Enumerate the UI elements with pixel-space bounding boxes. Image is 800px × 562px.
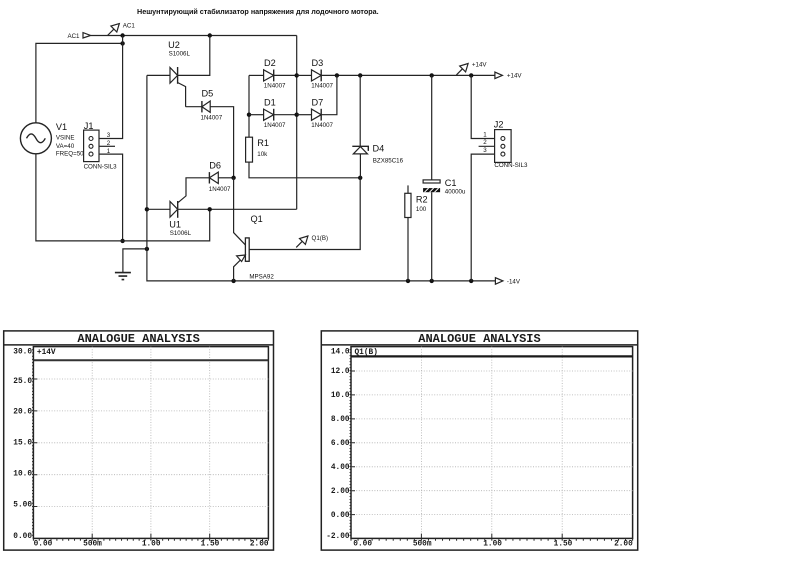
svg-text:1.50: 1.50 — [201, 541, 220, 549]
node top-2 — [208, 33, 212, 37]
svg-text:100: 100 — [416, 206, 427, 213]
svg-text:15.0: 15.0 — [13, 440, 32, 448]
analysis graph 1 — [4, 331, 274, 550]
wire R1 column — [248, 75, 250, 137]
svg-text:500m: 500m — [413, 541, 432, 549]
svg-text:5.00: 5.00 — [13, 501, 32, 509]
node top-1 — [120, 33, 124, 37]
node D6 anode — [231, 176, 235, 180]
svg-text:2.00: 2.00 — [250, 541, 269, 549]
svg-text:30.0: 30.0 — [13, 349, 32, 357]
ground branch wire — [123, 249, 147, 273]
svg-text:1N4007: 1N4007 — [311, 83, 333, 90]
probe Q1(B) — [296, 241, 302, 247]
svg-text:-2.00: -2.00 — [326, 533, 350, 541]
graph1 trace +14V — [33, 359, 268, 361]
wire D5 cathode — [186, 106, 202, 108]
svg-text:R1: R1 — [257, 138, 269, 148]
node U1 cathode — [208, 207, 212, 211]
svg-text:+14V: +14V — [507, 73, 522, 80]
resistor R2 — [407, 185, 409, 193]
node ground branch — [145, 247, 149, 251]
transistor Q1 — [234, 178, 246, 245]
graph2 trace Q1(B) — [351, 355, 633, 357]
capacitor C1 — [431, 75, 433, 179]
wire left column and bottom rail — [147, 75, 496, 281]
svg-text:6.00: 6.00 — [331, 440, 350, 448]
diode D6 — [208, 172, 210, 183]
svg-text:-14V: -14V — [507, 278, 521, 285]
wire U1 anode — [147, 208, 170, 210]
svg-text:CONN-SIL3: CONN-SIL3 — [84, 163, 118, 170]
graph2 y labels — [326, 349, 350, 542]
graph1 y labels — [13, 349, 32, 542]
node rail Q1 emitter — [231, 279, 235, 283]
svg-text:10k: 10k — [257, 151, 268, 158]
svg-text:2: 2 — [107, 140, 111, 147]
node V1 top — [120, 41, 124, 45]
svg-text:1.00: 1.00 — [142, 541, 161, 549]
wire D5 anode column — [210, 107, 233, 178]
svg-text:1N4007: 1N4007 — [311, 122, 333, 129]
node bridge bottom-left — [295, 113, 299, 117]
voltage source V1 — [20, 123, 51, 154]
wire D4 anode — [359, 154, 361, 178]
svg-text:1N4007: 1N4007 — [264, 83, 286, 90]
svg-text:1.50: 1.50 — [554, 541, 573, 549]
wire D7 anode — [297, 114, 312, 116]
terminal -14V — [495, 278, 503, 285]
svg-text:500m: 500m — [83, 541, 102, 549]
thyristor U2 — [170, 68, 178, 84]
diode D2 — [264, 70, 274, 81]
svg-text:D3: D3 — [312, 58, 324, 68]
svg-text:VA=40: VA=40 — [56, 143, 75, 150]
svg-text:VSINE: VSINE — [56, 135, 75, 142]
svg-text:Q1(B): Q1(B) — [312, 235, 329, 242]
wire D2 anode — [249, 74, 264, 76]
svg-text:4.00: 4.00 — [331, 464, 350, 472]
wire +14V rail — [321, 74, 495, 76]
svg-text:10.0: 10.0 — [13, 471, 32, 479]
graph1 gridlines — [33, 347, 268, 539]
svg-text:Нешунтирующий стабилизатор нап: Нешунтирующий стабилизатор напряжения дл… — [137, 7, 379, 16]
svg-text:U2: U2 — [168, 40, 180, 50]
wire V1 top loop — [36, 43, 123, 123]
node D7 top — [335, 73, 339, 77]
svg-text:Q1(B): Q1(B) — [355, 349, 378, 357]
svg-text:20.0: 20.0 — [13, 409, 32, 417]
resistor R1 — [246, 137, 253, 162]
node bridge top-left — [295, 73, 299, 77]
svg-text:+14V: +14V — [472, 61, 487, 68]
svg-text:V1: V1 — [56, 122, 67, 132]
graph2 x labels — [353, 541, 633, 549]
svg-text:1: 1 — [483, 131, 487, 138]
svg-text:R2: R2 — [416, 195, 428, 205]
terminal +14V — [495, 72, 503, 79]
svg-text:BZX85C16: BZX85C16 — [373, 157, 404, 164]
diode D7 — [312, 109, 322, 120]
wire D6 cathode and U1 gate — [178, 178, 209, 203]
wire D6 anode — [218, 177, 233, 179]
svg-text:CONN-SIL3: CONN-SIL3 — [494, 162, 528, 169]
svg-text:ANALOGUE ANALYSIS: ANALOGUE ANALYSIS — [418, 332, 540, 346]
svg-text:0.00: 0.00 — [34, 541, 53, 549]
probe AC1 — [108, 29, 114, 35]
graph2 gridlines — [351, 347, 633, 539]
wire D3 anode — [297, 74, 312, 76]
svg-text:1N4007: 1N4007 — [209, 186, 231, 193]
svg-text:1N4007: 1N4007 — [264, 122, 286, 129]
zener D4 — [352, 146, 368, 151]
wire D7 cathode up — [321, 75, 337, 114]
terminal AC1 — [83, 33, 91, 38]
node rail R2 — [406, 279, 410, 283]
wire D1 cathode — [274, 114, 297, 116]
svg-text:40000u: 40000u — [445, 189, 466, 196]
diode D1 — [264, 109, 274, 120]
wire V1 bottom loop to U1 — [36, 154, 210, 241]
svg-text:2.00: 2.00 — [614, 541, 633, 549]
svg-text:1: 1 — [107, 148, 111, 155]
diode D5 — [201, 101, 203, 112]
wire D2 cathode — [274, 74, 297, 76]
svg-text:0.00: 0.00 — [331, 512, 350, 520]
svg-text:3: 3 — [107, 132, 111, 139]
node R1 row right — [358, 176, 362, 180]
svg-text:+14V: +14V — [37, 349, 56, 357]
svg-text:MPSA92: MPSA92 — [249, 274, 274, 281]
wire D1 anode — [249, 114, 264, 116]
graph2 ticks — [350, 350, 633, 541]
svg-text:10.0: 10.0 — [331, 392, 350, 400]
connector J1 — [84, 130, 99, 162]
svg-text:S1006L: S1006L — [170, 230, 192, 237]
svg-text:C1: C1 — [445, 178, 457, 188]
svg-text:8.00: 8.00 — [331, 416, 350, 424]
thyristor U1 — [170, 202, 178, 218]
svg-text:14.0: 14.0 — [331, 349, 350, 357]
svg-text:D7: D7 — [312, 98, 324, 108]
wire J1 pin2 stub — [99, 145, 115, 147]
graph1 ticks — [32, 350, 268, 541]
connector J2 — [471, 75, 494, 138]
svg-text:AC1: AC1 — [67, 33, 80, 40]
node C1 top — [430, 73, 434, 77]
svg-text:D5: D5 — [202, 88, 214, 98]
svg-text:D6: D6 — [209, 161, 221, 171]
node rail C1 — [430, 279, 434, 283]
svg-text:0.00: 0.00 — [13, 533, 32, 541]
wire D4 to Q1 base — [249, 178, 360, 250]
node J2 top — [469, 73, 473, 77]
probe +14V — [456, 69, 462, 75]
svg-text:D4: D4 — [373, 144, 385, 154]
svg-text:AC1: AC1 — [123, 23, 136, 30]
wire top AC1 rail — [91, 35, 297, 37]
ground — [115, 273, 131, 280]
svg-text:FREQ=50: FREQ=50 — [56, 151, 84, 158]
node U1 anode — [145, 207, 149, 211]
node D4 top — [358, 73, 362, 77]
wire J1 pin1 — [99, 154, 123, 241]
svg-text:Q1: Q1 — [251, 214, 263, 224]
svg-text:J1: J1 — [84, 121, 94, 131]
wire U1 cathode row — [178, 208, 296, 210]
svg-text:D2: D2 — [264, 58, 276, 68]
svg-text:25.0: 25.0 — [13, 378, 32, 386]
svg-text:U1: U1 — [169, 219, 181, 229]
svg-text:12.0: 12.0 — [331, 368, 350, 376]
svg-text:1N4007: 1N4007 — [201, 115, 223, 122]
node pin1-bottom — [120, 239, 124, 243]
wire U2 anode — [147, 74, 170, 76]
node rail J2 — [469, 279, 473, 283]
wire U2 cathode — [178, 36, 210, 76]
graph1 x labels — [34, 541, 269, 549]
analysis graph 2 — [321, 331, 637, 550]
svg-text:ANALOGUE ANALYSIS: ANALOGUE ANALYSIS — [77, 332, 199, 346]
svg-text:3: 3 — [483, 147, 487, 154]
diode D3 — [312, 70, 322, 81]
svg-text:0.00: 0.00 — [353, 541, 372, 549]
wire right column down — [296, 36, 298, 210]
svg-text:2: 2 — [483, 139, 487, 146]
svg-text:D1: D1 — [264, 98, 276, 108]
svg-text:J2: J2 — [494, 120, 504, 130]
svg-text:2.00: 2.00 — [331, 488, 350, 496]
node D1 anode — [247, 113, 251, 117]
wire J1 pin3 column — [99, 36, 123, 139]
svg-text:S1006L: S1006L — [169, 51, 191, 58]
wire D4 top column — [359, 75, 361, 146]
wire R1 bottom row — [249, 162, 360, 178]
svg-text:1.00: 1.00 — [483, 541, 502, 549]
